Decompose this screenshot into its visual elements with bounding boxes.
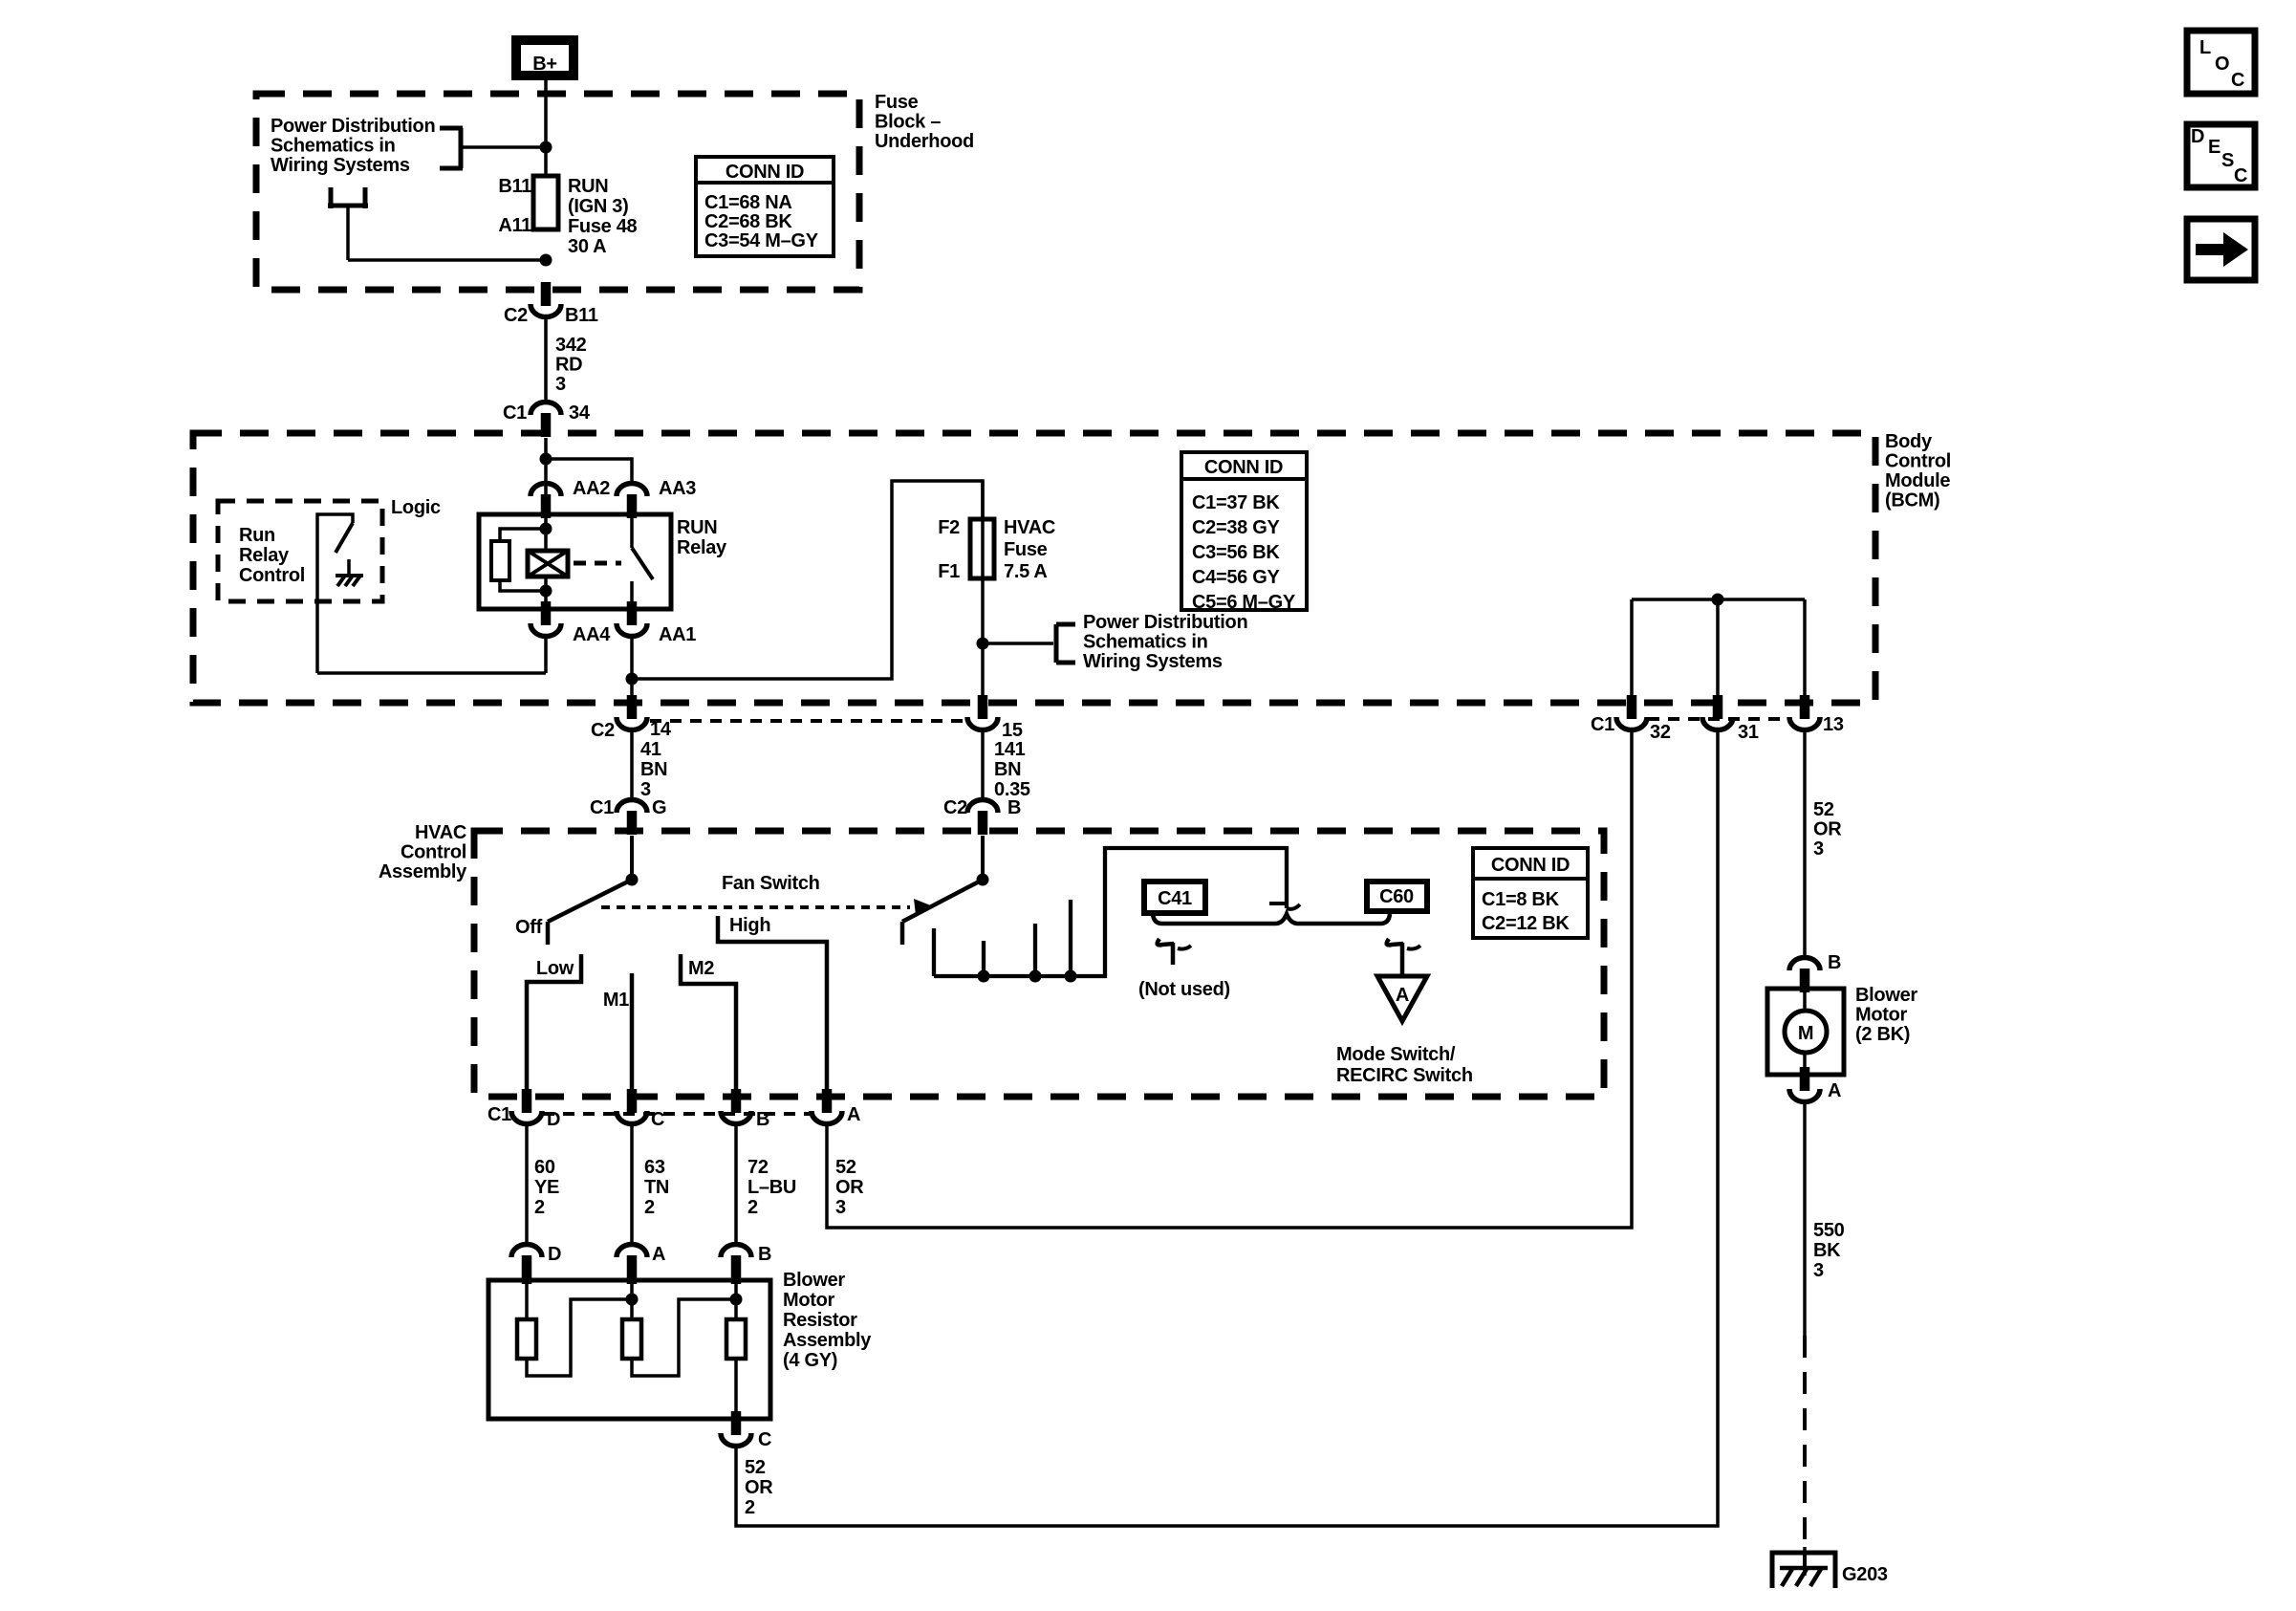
svg-text:2: 2 <box>745 1497 755 1518</box>
svg-text:Control: Control <box>239 565 305 586</box>
svg-text:F2: F2 <box>938 517 960 538</box>
svg-text:Assembly: Assembly <box>379 861 467 882</box>
connector pin A (resistor assembly) <box>617 1244 665 1284</box>
wire B+ to fuse 48 <box>544 80 548 178</box>
bracket reference symbol (BCM note) <box>1056 624 1075 663</box>
wire fuse output tap <box>983 642 1053 645</box>
svg-text:Power Distribution: Power Distribution <box>271 116 435 137</box>
svg-text:AA1: AA1 <box>659 624 696 645</box>
relay switch contact <box>632 514 653 609</box>
svg-text:550: 550 <box>1813 1220 1845 1241</box>
junction node coil bottom <box>540 585 552 598</box>
svg-text:Fan Switch: Fan Switch <box>722 873 820 894</box>
svg-text:CONN ID: CONN ID <box>1491 855 1570 876</box>
brace switch group <box>1153 914 1390 924</box>
label fuse terminals F2 F1 <box>938 517 960 582</box>
svg-text:Low: Low <box>536 958 574 979</box>
wire AA4 to logic <box>317 636 546 673</box>
relay coil wire <box>544 514 548 553</box>
body control module box <box>193 433 1875 703</box>
svg-text:M: M <box>1798 1023 1813 1044</box>
label body control module (BCM) <box>1885 431 1951 512</box>
svg-text:30 A: 30 A <box>568 236 606 257</box>
not used cavity symbol <box>1158 939 1191 965</box>
connector C2 pin B11 <box>504 282 598 326</box>
BCM internal output bus <box>1632 599 1805 707</box>
svg-text:Schematics in: Schematics in <box>1083 632 1208 653</box>
svg-text:C2: C2 <box>943 797 967 818</box>
junction node fan pole 1 <box>626 874 639 886</box>
junction node AA1 branch <box>626 673 639 686</box>
connector link dashed C2 <box>650 719 964 723</box>
label wire 52 OR 2 <box>745 1457 773 1518</box>
wire power distribution tap <box>461 145 546 149</box>
svg-text:3: 3 <box>555 374 566 395</box>
svg-text:A: A <box>652 1244 665 1265</box>
svg-text:Body: Body <box>1885 431 1933 452</box>
fuse 48 RUN (IGN 3) 30 A <box>533 176 558 229</box>
label wire 141 BN 0.35 <box>994 739 1030 800</box>
wire 550 BK 3 dashed continuation <box>1803 1336 1807 1568</box>
label high <box>729 915 770 936</box>
connector C2 pin B <box>943 797 1021 835</box>
connector pin B (blower motor) <box>1789 952 1841 992</box>
svg-text:52: 52 <box>835 1157 856 1178</box>
wire 141 BN 0.35 <box>981 729 985 801</box>
svg-text:Wiring Systems: Wiring Systems <box>1083 651 1223 672</box>
wire coil to AA4 <box>544 577 548 609</box>
svg-text:(4 GY): (4 GY) <box>783 1350 837 1371</box>
svg-text:15: 15 <box>1002 720 1023 741</box>
battery positive feed B+ <box>516 40 574 76</box>
svg-text:A: A <box>1396 985 1409 1006</box>
svg-text:3: 3 <box>835 1197 846 1218</box>
svg-text:OR: OR <box>1813 819 1842 840</box>
connector C1 pin 32 <box>1591 695 1671 743</box>
label RUN relay <box>677 517 727 558</box>
label fan switch <box>722 873 820 894</box>
svg-text:342: 342 <box>555 335 587 356</box>
svg-text:Motor: Motor <box>1855 1005 1908 1026</box>
svg-text:52: 52 <box>745 1457 766 1478</box>
svg-text:Fuse: Fuse <box>875 92 919 113</box>
svg-text:34: 34 <box>569 403 591 424</box>
svg-text:52: 52 <box>1813 799 1834 820</box>
svg-text:C1: C1 <box>1591 714 1614 735</box>
svg-text:Blower: Blower <box>783 1270 845 1291</box>
junction node fuse output tap <box>540 254 552 267</box>
label low <box>536 958 574 979</box>
svg-text:A: A <box>847 1104 860 1125</box>
svg-text:72: 72 <box>747 1157 769 1178</box>
conn id table (BCM) <box>1180 452 1309 613</box>
fan switch wafer contacts <box>934 848 1300 983</box>
svg-text:AA4: AA4 <box>573 624 611 645</box>
label fuse 48 value <box>568 176 638 257</box>
svg-text:Off: Off <box>515 917 543 938</box>
label wire 52 OR 3 <box>835 1157 864 1218</box>
wire through HVAC fuse <box>981 481 985 697</box>
svg-text:C1: C1 <box>590 797 614 818</box>
wire 60 YE 2 <box>525 1123 529 1245</box>
label not used <box>1138 979 1230 1000</box>
label wire 41 BN 3 <box>640 739 667 800</box>
conn id table (fuse block) <box>694 157 835 256</box>
blower motor resistor assembly box <box>488 1280 770 1419</box>
svg-text:7.5 A: 7.5 A <box>1004 561 1048 582</box>
svg-text:C1=37 BK: C1=37 BK <box>1192 492 1280 513</box>
svg-text:2: 2 <box>747 1197 758 1218</box>
blower motor box <box>1767 989 1844 1075</box>
label fuse 48 terminals B11 A11 <box>498 176 531 236</box>
wire 342 RD 3 <box>544 318 548 403</box>
svg-text:60: 60 <box>534 1157 555 1178</box>
svg-text:C: C <box>758 1429 771 1450</box>
resistor R2 <box>622 1280 641 1359</box>
svg-text:C1=8 BK: C1=8 BK <box>1482 889 1560 910</box>
svg-text:BK: BK <box>1813 1240 1841 1261</box>
junction node R2 top <box>626 1294 639 1306</box>
wire R1 to pin A node <box>527 1299 634 1376</box>
note power distribution schematics in wiring systems (BCM) <box>1083 612 1247 672</box>
svg-text:M1: M1 <box>603 990 629 1011</box>
svg-text:63: 63 <box>644 1157 665 1178</box>
wire BCM feed to relay <box>544 438 548 516</box>
svg-text:Motor: Motor <box>783 1290 835 1311</box>
svg-text:E: E <box>2208 137 2220 158</box>
wire 52 OR 3 pin 13 to blower <box>1803 729 1807 959</box>
svg-text:OR: OR <box>745 1477 773 1498</box>
junction node relay feed <box>540 453 552 466</box>
contact high wiring <box>718 916 827 1093</box>
conn id table (HVAC) <box>1471 848 1590 938</box>
svg-text:3: 3 <box>1813 1260 1824 1281</box>
svg-text:RD: RD <box>555 355 582 376</box>
resistor R1 <box>517 1280 536 1359</box>
svg-text:Schematics in: Schematics in <box>271 136 396 157</box>
connector AA2 <box>531 478 610 518</box>
svg-text:B: B <box>1828 952 1841 973</box>
connector AA3 <box>617 478 696 518</box>
ground G203 <box>1772 1547 1888 1588</box>
wire R3 to output C <box>734 1359 738 1423</box>
svg-text:C3=56 BK: C3=56 BK <box>1192 542 1280 563</box>
wire branch to AA3 <box>546 459 632 485</box>
wire 41 BN 3 <box>630 729 634 801</box>
label logic <box>391 497 441 518</box>
fan switch pole 1 blade <box>548 880 632 945</box>
svg-text:Resistor: Resistor <box>783 1310 857 1331</box>
svg-text:C1: C1 <box>487 1104 511 1125</box>
label blower motor resistor assembly <box>783 1270 872 1371</box>
relay mechanical link <box>574 561 621 566</box>
svg-text:High: High <box>729 915 770 936</box>
resistor R3 <box>726 1280 746 1359</box>
svg-text:B: B <box>1007 797 1021 818</box>
label wire 72 L-BU 2 <box>747 1157 796 1218</box>
svg-text:13: 13 <box>1823 714 1844 735</box>
contact low wiring <box>527 954 581 1093</box>
icon arrow <box>2187 219 2255 280</box>
label m1 <box>603 990 629 1011</box>
connector pin D (resistor assembly) <box>511 1244 561 1284</box>
label fuse block - underhood <box>875 92 974 152</box>
mode switch output A triangle <box>1377 976 1427 1021</box>
fuse block - underhood box <box>256 94 859 290</box>
icon LOC <box>2187 31 2255 94</box>
svg-text:C5=6 M–GY: C5=6 M–GY <box>1192 592 1296 613</box>
svg-text:3: 3 <box>640 779 651 800</box>
svg-text:Block –: Block – <box>875 112 941 133</box>
logic switch <box>317 514 353 673</box>
label wire 52 OR 3 (blower feed) <box>1813 799 1842 860</box>
svg-text:Logic: Logic <box>391 497 441 518</box>
svg-text:Fuse: Fuse <box>1004 539 1048 560</box>
wire 63 TN 2 <box>630 1123 634 1245</box>
connector C1 pin G <box>590 797 666 835</box>
connector C2 pin 14 <box>591 695 672 741</box>
label m2 <box>688 958 714 979</box>
label run relay control <box>239 525 305 586</box>
hvac control assembly box <box>474 831 1604 1097</box>
connector C1 pin B <box>721 1089 769 1130</box>
svg-text:Mode Switch/: Mode Switch/ <box>1336 1044 1456 1065</box>
svg-text:C4=56 GY: C4=56 GY <box>1192 567 1281 588</box>
svg-text:RUN: RUN <box>677 517 717 538</box>
svg-text:Relay: Relay <box>677 537 727 558</box>
svg-text:C2: C2 <box>591 720 615 741</box>
svg-text:B+: B+ <box>532 54 557 75</box>
svg-text:C1=68 NA: C1=68 NA <box>704 192 792 213</box>
mode switch cavity symbol <box>1387 939 1420 976</box>
svg-text:L–BU: L–BU <box>747 1177 796 1198</box>
svg-text:3: 3 <box>1813 838 1824 860</box>
svg-text:C2=38 GY: C2=38 GY <box>1192 517 1281 538</box>
label wire 63 TN 2 <box>644 1157 669 1218</box>
svg-text:AA2: AA2 <box>573 478 610 499</box>
svg-text:C2=68 BK: C2=68 BK <box>704 211 792 232</box>
svg-text:YE: YE <box>534 1177 559 1198</box>
connector pin A (blower motor) <box>1789 1067 1841 1102</box>
wire AA1 to HVAC fuse <box>632 481 983 697</box>
svg-text:A: A <box>1828 1080 1841 1101</box>
svg-text:D: D <box>2191 126 2204 147</box>
contact m2 wiring <box>681 954 736 1093</box>
svg-text:Control: Control <box>1885 451 1951 472</box>
relay K1 RUN relay box <box>479 514 671 609</box>
svg-text:OR: OR <box>835 1177 864 1198</box>
svg-text:BN: BN <box>640 759 667 780</box>
continuation stub symbol <box>328 187 368 260</box>
svg-text:B11: B11 <box>498 176 531 197</box>
contact m1 wiring <box>630 973 635 1093</box>
connector AA4 <box>531 601 611 645</box>
svg-text:Fuse 48: Fuse 48 <box>568 216 638 237</box>
connector pin C (resistor output) <box>721 1411 771 1450</box>
connector pin B (resistor assembly) <box>721 1244 771 1284</box>
connector C41 <box>1144 882 1205 913</box>
svg-text:(Not used): (Not used) <box>1138 979 1230 1000</box>
connector C1 pin 13 <box>1789 695 1844 735</box>
connector C60 <box>1367 882 1427 911</box>
svg-text:RECIRC Switch: RECIRC Switch <box>1336 1065 1473 1086</box>
svg-text:Blower: Blower <box>1855 985 1917 1006</box>
svg-text:RUN: RUN <box>568 176 608 197</box>
svg-text:B11: B11 <box>565 305 598 326</box>
svg-text:L: L <box>2199 37 2211 58</box>
svg-text:O: O <box>2215 54 2229 75</box>
fan switch pole 2 blade <box>902 880 983 945</box>
svg-text:Module: Module <box>1885 470 1950 491</box>
svg-text:TN: TN <box>644 1177 669 1198</box>
svg-text:C41: C41 <box>1158 888 1192 909</box>
fan switch mechanical link <box>601 899 933 915</box>
svg-text:Assembly: Assembly <box>783 1330 872 1351</box>
svg-text:AA3: AA3 <box>659 478 696 499</box>
label wire 60 YE 2 <box>534 1157 559 1218</box>
wire continuation to fuse output <box>348 258 546 262</box>
junction node R3 top <box>730 1294 743 1306</box>
fan switch pole 2 wire <box>981 836 985 880</box>
svg-text:31: 31 <box>1738 722 1759 743</box>
svg-text:(IGN 3): (IGN 3) <box>568 196 628 217</box>
junction node power tap <box>540 142 552 154</box>
connector link dashed C1 (HVAC) <box>543 1112 811 1116</box>
svg-text:F1: F1 <box>938 561 960 582</box>
wire 72 L-BU 2 <box>734 1123 738 1245</box>
connector C1 pin D <box>487 1089 560 1130</box>
blower motor M <box>1785 989 1827 1075</box>
connector AA1 <box>617 601 696 645</box>
junction node fan pole 2 <box>977 874 989 886</box>
junction node output bus <box>1712 594 1724 606</box>
svg-text:Run: Run <box>239 525 275 546</box>
icon DESC <box>2187 124 2255 187</box>
svg-text:C: C <box>651 1109 664 1130</box>
connector C1 pin C <box>617 1089 664 1130</box>
junction node coil top <box>540 523 552 535</box>
svg-text:CONN ID: CONN ID <box>726 162 804 183</box>
svg-text:Control: Control <box>401 842 466 863</box>
svg-text:2: 2 <box>644 1197 655 1218</box>
svg-text:Power Distribution: Power Distribution <box>1083 612 1247 633</box>
svg-text:Wiring Systems: Wiring Systems <box>271 155 410 176</box>
svg-text:G203: G203 <box>1842 1564 1888 1585</box>
svg-text:D: D <box>548 1244 561 1265</box>
svg-text:CONN ID: CONN ID <box>1204 457 1283 478</box>
svg-text:C2=12 BK: C2=12 BK <box>1482 913 1570 934</box>
wire 52 OR 2 to BCM pin 31 <box>736 728 1718 1526</box>
svg-text:C: C <box>2231 70 2244 91</box>
fuse F2-F1 HVAC 7.5 A <box>970 519 994 578</box>
svg-text:A11: A11 <box>498 215 531 236</box>
connector C1 pin 31 <box>1702 695 1759 743</box>
bracket reference symbol (fuse block note) <box>440 128 463 168</box>
svg-text:C1: C1 <box>503 403 527 424</box>
svg-text:B: B <box>758 1244 771 1265</box>
svg-text:S: S <box>2221 150 2234 171</box>
svg-text:C60: C60 <box>1379 886 1414 907</box>
relay coil suppression resistor <box>491 529 546 591</box>
run relay control box <box>218 501 382 601</box>
svg-text:M2: M2 <box>688 958 714 979</box>
connector C1 pin 34 <box>503 403 591 438</box>
wire R2 to pin B node <box>632 1299 738 1376</box>
label HVAC fuse value <box>1004 517 1055 582</box>
connector C2 pin 15 <box>967 695 1023 741</box>
label blower motor (2 BK) <box>1855 985 1917 1045</box>
connector link dashed C1 (BCM) <box>1648 717 1788 721</box>
wire 52 OR 3 to BCM pin 32 <box>827 728 1632 1228</box>
svg-text:Underhood: Underhood <box>875 131 974 152</box>
label wire 550 BK 3 <box>1813 1220 1845 1281</box>
label mode switch / recirc switch <box>1336 1044 1473 1086</box>
fan switch pole 1 wire <box>630 836 634 880</box>
label wire 342 RD 3 <box>555 335 587 395</box>
connector C1 pin A <box>812 1089 860 1125</box>
junction node fuse F1 output <box>977 638 989 650</box>
svg-text:C: C <box>2234 165 2247 186</box>
svg-text:B: B <box>756 1109 769 1130</box>
note power distribution schematics in wiring systems (fuse block) <box>271 116 435 176</box>
svg-text:2: 2 <box>534 1197 545 1218</box>
relay coil <box>528 551 568 577</box>
svg-text:C3=54 M–GY: C3=54 M–GY <box>704 230 819 251</box>
svg-text:BN: BN <box>994 759 1021 780</box>
svg-text:HVAC: HVAC <box>1004 517 1055 538</box>
ground (run relay control logic) <box>336 559 363 586</box>
label hvac control assembly <box>379 822 467 882</box>
svg-text:32: 32 <box>1650 722 1671 743</box>
svg-text:G: G <box>652 797 666 818</box>
svg-text:(2 BK): (2 BK) <box>1855 1024 1910 1045</box>
svg-text:Relay: Relay <box>239 545 290 566</box>
svg-text:141: 141 <box>994 739 1026 760</box>
label off <box>515 917 543 938</box>
svg-text:C2: C2 <box>504 305 528 326</box>
svg-text:HVAC: HVAC <box>415 822 466 843</box>
wire 550 BK 3 <box>1803 1101 1807 1336</box>
svg-text:(BCM): (BCM) <box>1885 490 1939 512</box>
svg-text:41: 41 <box>640 739 661 760</box>
